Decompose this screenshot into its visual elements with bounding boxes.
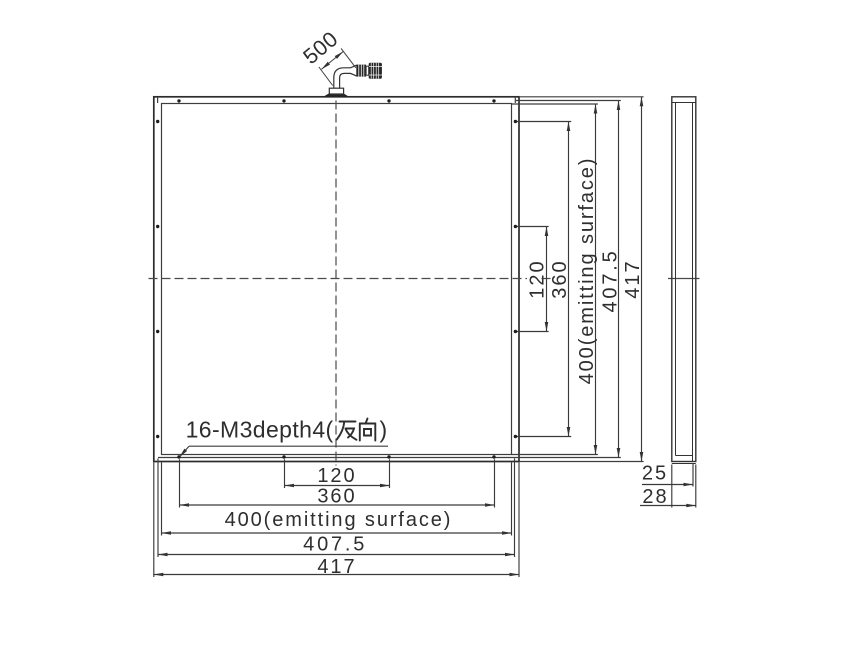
svg-text:120: 120 — [317, 465, 356, 487]
svg-text:417: 417 — [317, 556, 356, 578]
svg-text:500: 500 — [299, 27, 343, 69]
svg-text:400(emitting surface): 400(emitting surface) — [576, 157, 598, 385]
svg-text:360: 360 — [549, 259, 571, 298]
svg-text:360: 360 — [317, 485, 356, 507]
svg-text:28: 28 — [642, 486, 668, 508]
svg-text:407.5: 407.5 — [599, 248, 621, 312]
svg-text:400(emitting surface): 400(emitting surface) — [225, 509, 453, 531]
svg-text:): ) — [380, 417, 388, 443]
svg-text:120: 120 — [527, 259, 549, 298]
svg-text:407.5: 407.5 — [303, 534, 367, 556]
svg-text:25: 25 — [642, 463, 668, 485]
svg-text:417: 417 — [622, 259, 644, 298]
svg-text:16-M3depth4(: 16-M3depth4( — [186, 417, 334, 443]
